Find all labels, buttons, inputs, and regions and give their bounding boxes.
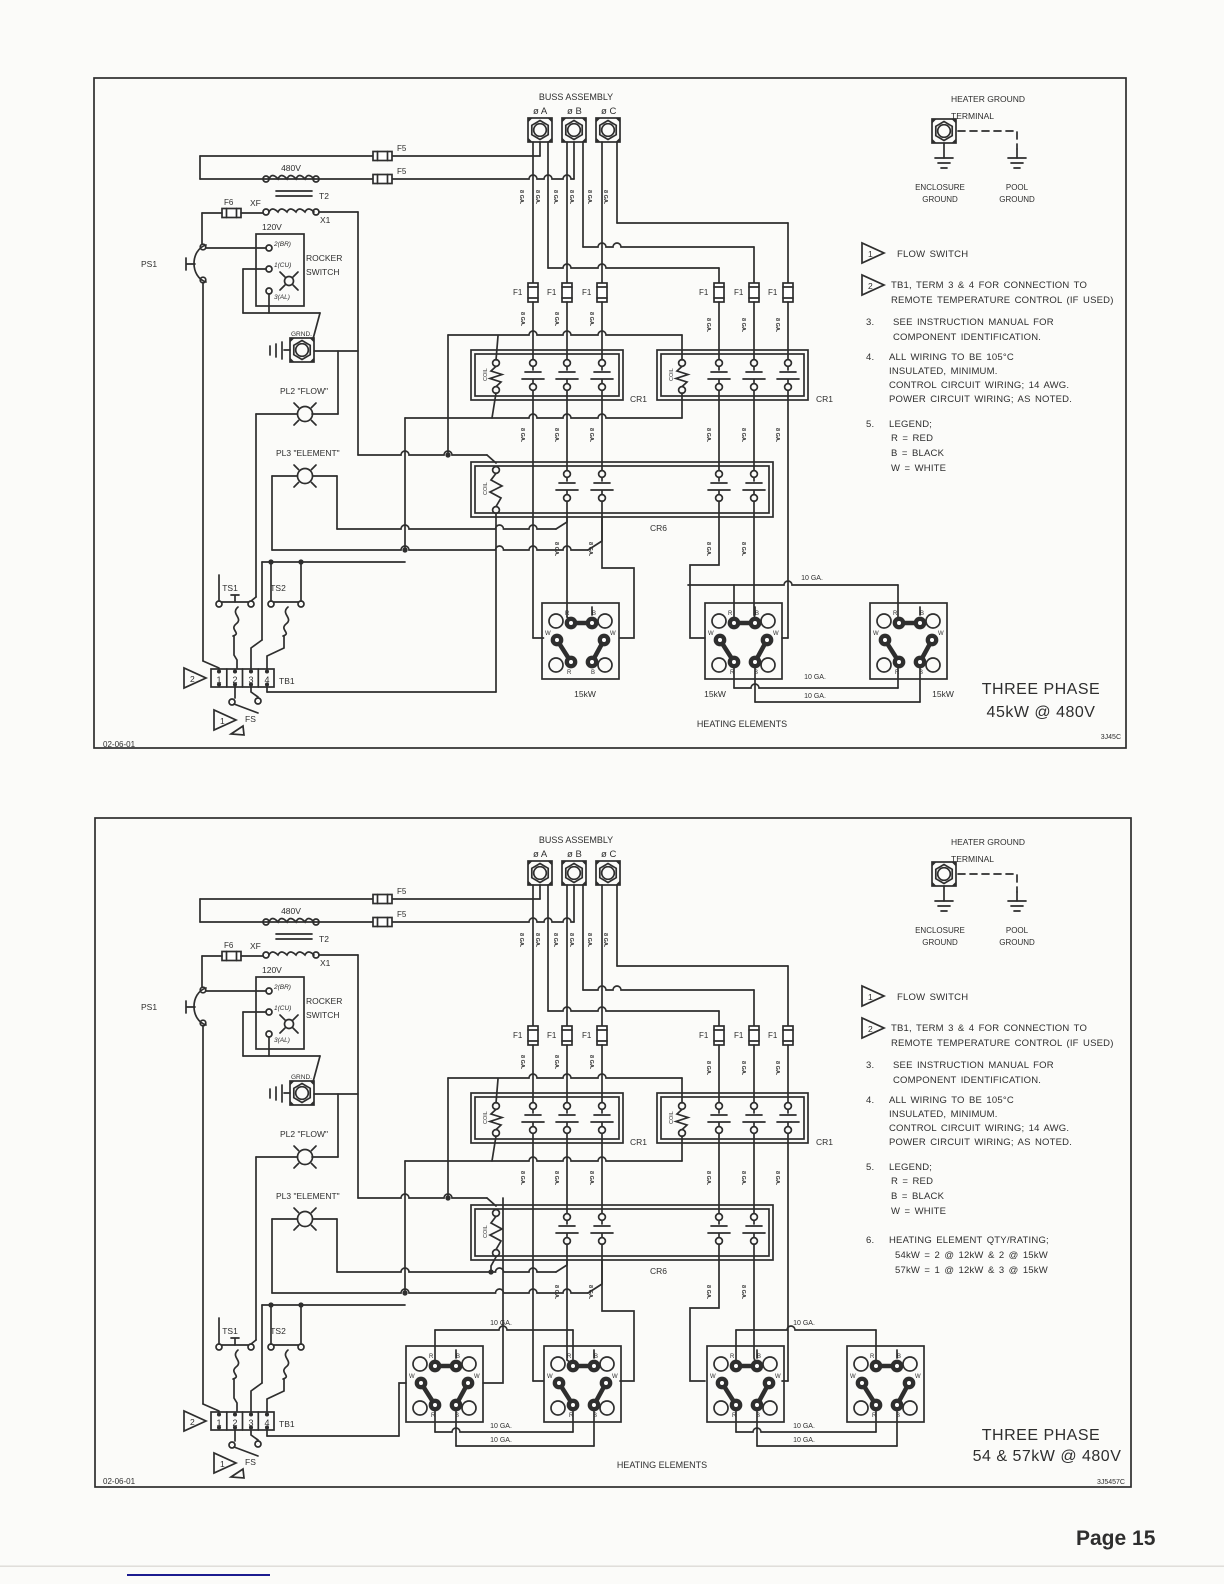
svg-text:10 GA.: 10 GA. [490,1423,512,1430]
svg-text:HEATING ELEMENTS: HEATING ELEMENTS [697,719,787,729]
svg-text:HEATING ELEMENTS: HEATING ELEMENTS [617,1460,707,1470]
svg-text:45kW @ 480V: 45kW @ 480V [987,704,1096,721]
svg-text:10 GA.: 10 GA. [793,1423,815,1430]
svg-text:3J45C: 3J45C [1101,734,1121,741]
svg-text:HEATING ELEMENT QTY/RATING;: HEATING ELEMENT QTY/RATING; [889,1235,1049,1246]
svg-text:15kW: 15kW [932,689,954,699]
svg-text:57kW = 1 @ 12kW & 3 @ 15kW: 57kW = 1 @ 12kW & 3 @ 15kW [895,1265,1048,1276]
svg-text:Page 15: Page 15 [1076,1527,1156,1550]
svg-text:54 & 57kW @ 480V: 54 & 57kW @ 480V [973,1448,1122,1465]
svg-text:15kW: 15kW [574,689,596,699]
svg-text:10 GA.: 10 GA. [793,1437,815,1444]
svg-text:10 GA.: 10 GA. [804,674,826,681]
svg-text:THREE PHASE: THREE PHASE [982,681,1100,698]
svg-text:6.: 6. [866,1235,874,1246]
svg-text:THREE PHASE: THREE PHASE [982,1427,1100,1444]
svg-text:10 GA.: 10 GA. [490,1320,512,1327]
svg-text:3J5457C: 3J5457C [1097,1479,1125,1486]
svg-text:54kW = 2 @ 12kW & 2 @ 15kW: 54kW = 2 @ 12kW & 2 @ 15kW [895,1250,1048,1261]
svg-text:15kW: 15kW [704,689,726,699]
svg-text:02-06-01: 02-06-01 [103,1477,136,1486]
svg-text:10 GA.: 10 GA. [804,693,826,700]
svg-text:10 GA.: 10 GA. [793,1320,815,1327]
svg-text:10 GA.: 10 GA. [490,1437,512,1444]
svg-text:02-06-01: 02-06-01 [103,740,136,749]
svg-text:10 GA.: 10 GA. [801,575,823,582]
